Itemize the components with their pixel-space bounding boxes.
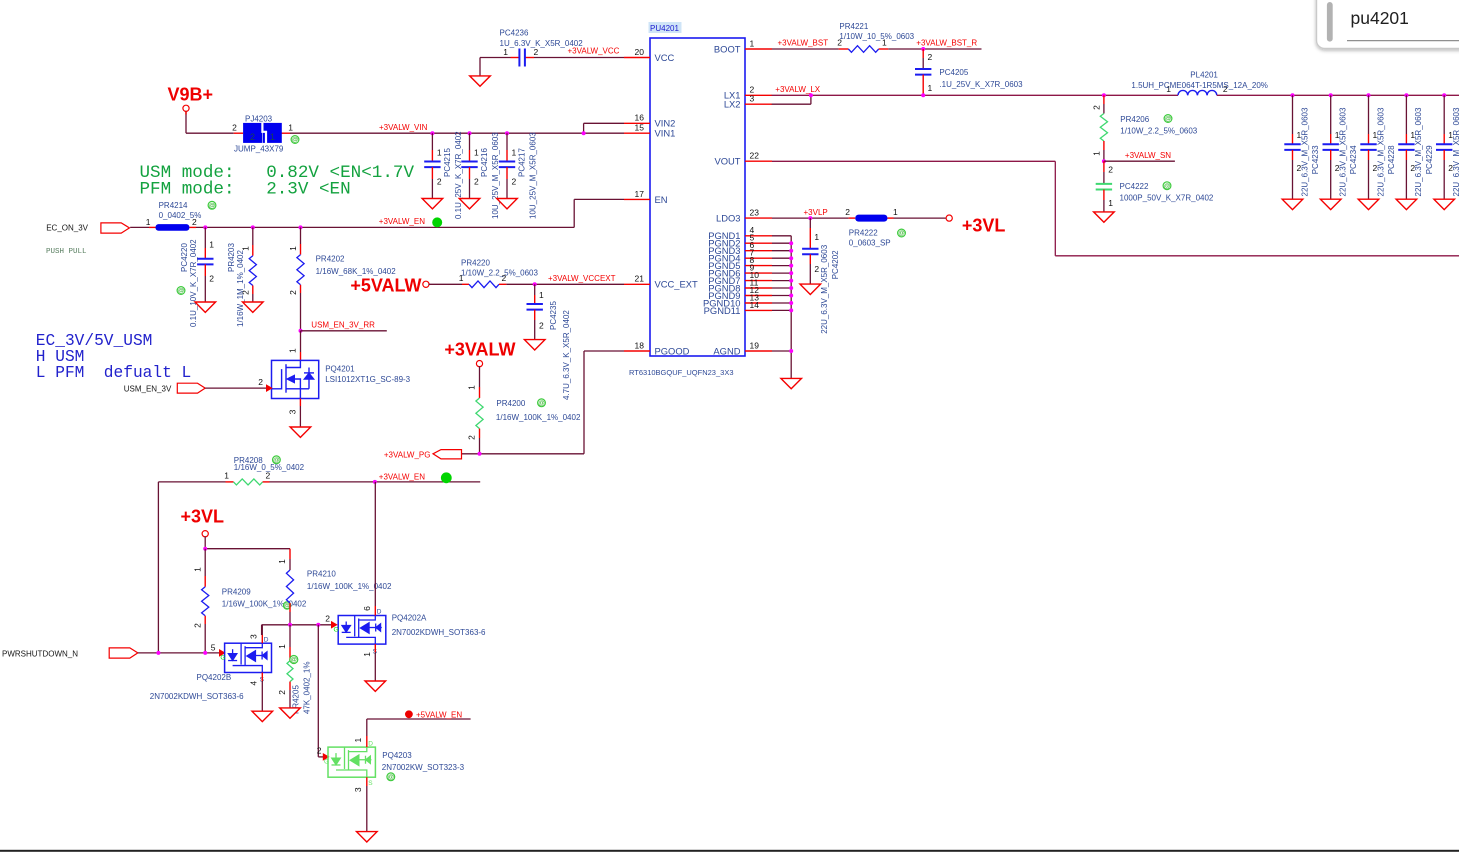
svg-text:2: 2 (250, 132, 255, 142)
svg-text:@: @ (209, 203, 216, 210)
svg-text:RT6310BGQUF_UQFN23_3X3: RT6310BGQUF_UQFN23_3X3 (629, 368, 734, 377)
junction on +3VALW rail at PC4228 (1367, 93, 1371, 97)
svg-text:PR4220: PR4220 (461, 259, 490, 268)
svg-text:1: 1 (209, 239, 214, 249)
wire PQ4202B source to ground (261, 673, 263, 712)
svg-text:1: 1 (288, 123, 293, 133)
svg-text:23: 23 (750, 208, 760, 218)
svg-text:2: 2 (288, 290, 298, 295)
net label +3VALW_EN (bottom) (379, 472, 452, 483)
svg-text:1: 1 (362, 652, 372, 657)
junction at PR4200 bottom (478, 452, 482, 456)
ground for PC4202 (800, 284, 821, 294)
net label +3VALW_EN (top) (379, 217, 442, 227)
svg-text:+3VALW_VCCEXT: +3VALW_VCCEXT (548, 274, 616, 283)
svg-text:D: D (368, 741, 373, 748)
power symbol +3VL (right) (946, 215, 1005, 236)
svg-text:+5VALW: +5VALW (350, 276, 421, 296)
svg-text:PR4221: PR4221 (839, 22, 868, 31)
svg-text:@: @ (387, 774, 394, 781)
svg-text:+3VALW_VCC: +3VALW_VCC (568, 47, 620, 56)
svg-text:2: 2 (232, 123, 237, 133)
wire EC_ON_3V to PR4214 (130, 226, 149, 228)
svg-text:+3VALW_SN: +3VALW_SN (1125, 151, 1171, 160)
wire +5VALW to PR4220 (429, 283, 463, 285)
svg-text:22U_6.3V_M_X5R_0603: 22U_6.3V_M_X5R_0603 (1414, 107, 1423, 197)
jumper PJ4203 JUMP_43X79 (232, 114, 299, 153)
wire PQ4202A source to ground (374, 644, 376, 681)
pin 9 (PGND6) of PU4201 (708, 263, 772, 279)
svg-text:BOOT: BOOT (714, 43, 741, 54)
svg-text:1: 1 (224, 471, 229, 481)
svg-text:PC4228: PC4228 (1387, 145, 1396, 174)
junction at PC4205 bottom (921, 93, 925, 97)
svg-text:2: 2 (209, 273, 214, 283)
svg-text:6: 6 (362, 606, 372, 611)
net label +3VALW_SN (1125, 151, 1171, 160)
svg-text:PQ4202A: PQ4202A (392, 614, 427, 623)
svg-text:PL4201: PL4201 (1190, 71, 1218, 80)
capacitor PC4228 22U_6.3V_M_X5R_0603 (1360, 95, 1396, 199)
svg-text:22: 22 (750, 151, 760, 161)
svg-text:1/10W_2.2_5%_0603: 1/10W_2.2_5%_0603 (1120, 126, 1198, 135)
ground for PC4217 (497, 199, 518, 209)
net label +3VALW_BST (778, 39, 829, 48)
net label +3VALW_VIN (379, 123, 428, 132)
svg-text:+3VALW: +3VALW (444, 340, 515, 360)
resistor PR4206 1/10W_2.2_5%_0603 (1091, 95, 1197, 161)
ground for PC4230 (1434, 199, 1455, 209)
capacitor PC4202 22U_6.3V_M_X5R_0603 (802, 218, 840, 334)
svg-text:47K_0402_1%: 47K_0402_1% (303, 662, 312, 715)
ground for PC4235 (524, 340, 545, 350)
svg-text:PC4222: PC4222 (1120, 182, 1149, 191)
svg-text:VIN1: VIN1 (655, 128, 676, 139)
svg-text:1: 1 (353, 738, 363, 743)
resistor PR4205 47K_0402_1% (277, 625, 312, 714)
svg-text:1: 1 (928, 83, 933, 93)
power symbol +3VALW (444, 340, 515, 367)
wire +3VL to PR4209/PR4210 (205, 536, 290, 548)
svg-text:3: 3 (288, 409, 298, 414)
resistor PR4210 1/16W_100K_1%_0402 (277, 549, 392, 625)
capacitor PC4217 10U_25V_M_X5R_0603 (499, 132, 538, 219)
ground for PC4228 (1358, 199, 1379, 209)
svg-text:1: 1 (277, 644, 287, 649)
svg-text:1000P_50V_K_X7R_0402: 1000P_50V_K_X7R_0402 (1120, 194, 1214, 203)
svg-text:PC4215: PC4215 (443, 148, 452, 177)
svg-text:PGND11: PGND11 (704, 305, 741, 316)
svg-text:1.5UH_PCME064T-1R5MS_12A_20%: 1.5UH_PCME064T-1R5MS_12A_20% (1131, 81, 1268, 90)
svg-text:PQ4202B: PQ4202B (197, 673, 232, 682)
svg-text:PC4236: PC4236 (500, 29, 529, 38)
junction at PC4205 (921, 47, 925, 51)
pin 10 (PGND7) of PU4201 (708, 270, 772, 286)
svg-text:1: 1 (467, 385, 477, 390)
wire stub USM_EN_3V_RR (301, 330, 387, 332)
transistor PQ4201 LSI1012XT1G_SC-89-3 (272, 348, 411, 414)
svg-text:1: 1 (893, 207, 898, 217)
svg-text:+3VALW_EN: +3VALW_EN (379, 472, 425, 481)
ground for PQ4201 (290, 427, 311, 437)
svg-text:PR4209: PR4209 (222, 587, 251, 596)
svg-text:PC4216: PC4216 (480, 148, 489, 177)
wire PQ4201 source to ground (299, 399, 301, 428)
svg-text:AGND: AGND (713, 345, 740, 356)
svg-text:PC4217: PC4217 (518, 148, 527, 177)
resistor PR4222 0_0603_SP (845, 207, 905, 247)
svg-text:2: 2 (1108, 165, 1113, 175)
junction PWRSHUTDOWN at +3VALW_EN branch (156, 651, 160, 655)
svg-text:1/16W_1M_1%_0402: 1/16W_1M_1%_0402 (236, 250, 245, 327)
svg-text:PGOOD: PGOOD (655, 345, 690, 356)
svg-text:+3VALW_LX: +3VALW_LX (775, 85, 821, 94)
svg-text:1: 1 (277, 559, 287, 564)
svg-text:21: 21 (635, 274, 645, 284)
svg-text:USM_EN_3V: USM_EN_3V (124, 384, 172, 393)
wire PQ4203 source to ground (366, 777, 368, 831)
gate arrow PQ4203 pin 2 (317, 746, 329, 760)
svg-text:2: 2 (192, 623, 202, 628)
svg-text:VCC: VCC (655, 52, 675, 63)
wire net +3VALW_PG (462, 351, 625, 454)
net label USM_EN_3V_RR (311, 321, 375, 330)
capacitor PC4234 22U_6.3V_M_X5R_0603 (1323, 95, 1359, 199)
svg-text:1: 1 (288, 246, 298, 251)
ground for PR4205 (280, 708, 301, 718)
pin 5 (PGND2) of PU4201 (708, 233, 772, 249)
svg-text:D: D (377, 609, 382, 616)
svg-text:2: 2 (928, 52, 933, 62)
port EC_ON_3V (46, 223, 129, 233)
junction +3VALW_EN at PR4202 (299, 225, 303, 229)
svg-text:1/16W_0_5%_0402: 1/16W_0_5%_0402 (234, 463, 305, 472)
net label +3VALW_VCCEXT (548, 274, 616, 283)
gate arrow PQ4202B pin 5 (211, 643, 225, 656)
svg-text:1: 1 (146, 217, 151, 227)
power symbol V9B+ (167, 84, 213, 111)
junction at PR4205 / PQ4203 branch (316, 623, 320, 627)
net label +3VALW_BST_R (916, 39, 977, 48)
svg-text:2: 2 (1091, 105, 1101, 110)
ground for PC4222 (1094, 212, 1115, 222)
pin 12 (PGND9) of PU4201 (708, 285, 772, 301)
text note USM/PFM mode (green) (140, 163, 415, 200)
junctions on PGND bus (789, 241, 793, 353)
net label +3VALW_VCC (568, 47, 620, 56)
pin 23 (LDO3) of PU4201 (716, 208, 772, 224)
svg-text:17: 17 (635, 189, 645, 199)
svg-text:1: 1 (1091, 151, 1101, 156)
svg-text:4: 4 (249, 681, 259, 686)
text note PUSH PULL (46, 248, 87, 256)
svg-text:1: 1 (288, 348, 298, 353)
net label +3VALW_LX (775, 85, 821, 94)
capacitor PC4230 22U_6.3V_M_X5R_0603 (1436, 95, 1459, 199)
wire net +3VALW_EN bottom run (158, 482, 480, 653)
junction at PR4210 bottom (288, 623, 292, 627)
wire net VOUT to +3VALW rail (772, 161, 1459, 256)
svg-text:+3VLP: +3VLP (804, 208, 828, 217)
svg-text:3: 3 (750, 94, 755, 104)
svg-text:JUMP_43X79: JUMP_43X79 (234, 145, 284, 154)
window bottom edge line (0, 850, 1459, 852)
svg-text:22U_6.3V_M_X5R_0603: 22U_6.3V_M_X5R_0603 (1339, 107, 1348, 197)
svg-text:L PFM defualt L: L PFM defualt L (36, 364, 191, 382)
svg-text:2: 2 (258, 377, 263, 387)
svg-text:2: 2 (474, 177, 479, 187)
gate arrow PQ4202A pin 2 (325, 613, 336, 628)
junction at PC4235 (533, 282, 537, 286)
ground for PC4216 (459, 199, 480, 209)
pin 7 (PGND4) of PU4201 (708, 248, 772, 264)
svg-text:10U_25V_M_X5R_0603: 10U_25V_M_X5R_0603 (491, 132, 500, 219)
svg-text:1: 1 (474, 148, 479, 158)
svg-text:3: 3 (353, 787, 363, 792)
svg-text:2: 2 (317, 746, 322, 756)
wire net +3VLP (772, 217, 849, 219)
svg-text:PC4205: PC4205 (939, 68, 968, 77)
wire PWRSHUTDOWN_N to PQ4202B gate (138, 652, 220, 654)
svg-text:0_0402_5%: 0_0402_5% (159, 211, 202, 220)
junction at PC4202 (808, 216, 812, 220)
junction +3VALW_EN at PQ4202A drain (373, 480, 377, 484)
port USM_EN_3V (124, 383, 205, 393)
svg-text:1: 1 (539, 290, 544, 300)
resistor PR4220 1/10W_2.2_5%_0603 (459, 259, 539, 288)
resistor PR4214 0_0402_5% (146, 201, 216, 231)
svg-text:+3VALW_BST: +3VALW_BST (778, 39, 829, 48)
wire net +3VALW_EN top run (196, 199, 624, 227)
capacitor PC4220 0.1U_10V_K_X7R_0402 (177, 227, 214, 327)
svg-text:@: @ (1164, 183, 1171, 190)
junction node +3VALW_SN (1102, 159, 1106, 163)
ground for PC4215 (422, 199, 443, 209)
wire gate row PQ4202A (262, 625, 332, 635)
port PWRSHUTDOWN_N (2, 648, 138, 658)
svg-text:+5VALW_EN: +5VALW_EN (416, 710, 462, 719)
transistor PQ4202B 2N7002KDWH_SOT363-6 (150, 625, 272, 701)
svg-text:0.1U_10V_K_X7R_0402: 0.1U_10V_K_X7R_0402 (189, 239, 198, 327)
junction on +3VALW rail at PC4234 (1329, 93, 1333, 97)
capacitor PC4205 .1U_25V_K_X7R_0603 (915, 49, 1023, 95)
svg-text:G: G (324, 758, 329, 765)
ground for PC4229 (1396, 199, 1417, 209)
resistor PR4202 1/16W_68K_1%_0402 (288, 227, 396, 330)
svg-text:PJ4203: PJ4203 (245, 114, 273, 123)
junction at PR4206 (1102, 93, 1106, 97)
capacitor PC4216 10U_25V_M_X5R_0603 (461, 132, 500, 219)
svg-text:2: 2 (534, 47, 539, 57)
IC PU4201 RT6310BGQUF_UQFN23_3X3 body (629, 22, 745, 377)
svg-text:2: 2 (277, 690, 287, 695)
ground for PQ4203 (357, 832, 378, 842)
ground for PQ4202A (365, 681, 386, 691)
svg-text:2: 2 (467, 435, 477, 440)
junction on +3VALW rail at PC4233 (1291, 93, 1295, 97)
wire PGND bus (772, 236, 791, 379)
power symbol +3VL (bottom) (180, 506, 224, 537)
svg-text:1: 1 (437, 148, 442, 158)
search overlay panel (1317, 0, 1459, 49)
svg-text:VCC_EXT: VCC_EXT (655, 279, 699, 290)
ground for PQ4202B (252, 711, 273, 721)
pin 3 (LX2) of PU4201 (724, 94, 772, 110)
svg-text:1: 1 (512, 148, 517, 158)
pin 20 (VCC) of PU4201 (624, 47, 675, 63)
svg-text:EC_ON_3V: EC_ON_3V (46, 224, 88, 233)
svg-text:19: 19 (750, 340, 760, 350)
svg-text:PR4206: PR4206 (1120, 115, 1149, 124)
svg-text:PR4203: PR4203 (227, 243, 236, 272)
svg-text:V9B+: V9B+ (167, 84, 213, 104)
net label +3VLP (804, 208, 828, 217)
svg-text:PQ4201: PQ4201 (325, 365, 355, 374)
pin 16 (VIN2) of PU4201 (624, 113, 675, 129)
svg-text:@: @ (290, 657, 297, 664)
net label +5VALW_EN (405, 710, 462, 719)
pin 6 (PGND3) of PU4201 (708, 240, 772, 256)
text note EC_3V/5V_USM (blue) (36, 332, 191, 382)
svg-text:+3VALW_BST_R: +3VALW_BST_R (916, 39, 977, 48)
svg-text:1/10W_10_5%_0603: 1/10W_10_5%_0603 (839, 32, 914, 41)
wire net V9B+ to jumper (186, 111, 234, 133)
svg-text:VOUT: VOUT (714, 156, 740, 167)
wire net +3VALW_LX (772, 95, 1178, 104)
ground for PC4234 (1320, 199, 1341, 209)
svg-text:PFM mode: 2.3V <EN: PFM mode: 2.3V <EN (140, 180, 351, 200)
svg-text:22U_6.3V_M_X5R_0603: 22U_6.3V_M_X5R_0603 (1452, 107, 1459, 197)
pin 2 (LX1) of PU4201 (724, 85, 772, 101)
junction on +3VALW_VIN at PC4216 (468, 131, 472, 135)
wire stub +3VALW_SN (1104, 160, 1175, 162)
port +3VALW_PG (384, 450, 462, 460)
svg-text:+3VALW_VIN: +3VALW_VIN (379, 123, 428, 132)
svg-text:16: 16 (635, 113, 645, 123)
svg-text:1: 1 (192, 567, 202, 572)
svg-text:PR4210: PR4210 (307, 570, 336, 579)
svg-text:+3VL: +3VL (962, 216, 1006, 236)
pin 18 (PGOOD) of PU4201 (624, 340, 690, 356)
svg-text:+3VL: +3VL (180, 506, 224, 526)
svg-text:5: 5 (211, 643, 216, 653)
pin 21 (VCC_EXT) of PU4201 (624, 274, 698, 290)
wire net +5VALW_EN (367, 719, 471, 736)
svg-text:2: 2 (437, 177, 442, 187)
wire net +3VALW_VCCEXT (506, 283, 624, 285)
capacitor PC4235 4.7U_6.3V_K_X5R_0402 (527, 284, 571, 400)
svg-text:2: 2 (814, 264, 819, 274)
svg-text:LDO3: LDO3 (716, 213, 741, 224)
svg-text:pu4201: pu4201 (1351, 8, 1409, 28)
pin 14 (PGND11) of PU4201 (704, 300, 772, 316)
svg-text:0.1U_25V_K_X7R_0402: 0.1U_25V_K_X7R_0402 (454, 131, 463, 219)
junction on +3VALW_VIN at PC4215 (430, 131, 434, 135)
capacitor PC4229 22U_6.3V_M_X5R_0603 (1398, 95, 1434, 199)
svg-text:1: 1 (814, 232, 819, 242)
svg-text:4.7U_6.3V_K_X5R_0402: 4.7U_6.3V_K_X5R_0402 (562, 310, 571, 400)
svg-text:+3VALW_EN: +3VALW_EN (379, 217, 425, 226)
svg-text:2N7002KDWH_SOT363-6: 2N7002KDWH_SOT363-6 (392, 628, 486, 637)
wire PR4222 to +3VL (894, 217, 947, 219)
pin 22 (VOUT) of PU4201 (714, 151, 772, 167)
resistor PR4200 1/16W_100K_1%_0402 (467, 366, 581, 454)
resistor PR4221 1/10W_10_5%_0603 (837, 22, 914, 52)
pin 13 (PGND10) of PU4201 (703, 292, 772, 308)
svg-text:LSI1012XT1G_SC-89-3: LSI1012XT1G_SC-89-3 (325, 375, 410, 384)
svg-text:1/16W_100K_1%_0402: 1/16W_100K_1%_0402 (496, 413, 581, 422)
svg-text:22U_6.3V_M_X5R_0603: 22U_6.3V_M_X5R_0603 (1376, 107, 1385, 197)
svg-text:@: @ (1165, 116, 1172, 123)
svg-text:PC4234: PC4234 (1349, 145, 1358, 174)
svg-text:PC4229: PC4229 (1425, 145, 1434, 174)
wire USM_EN_3V to PQ4201 gate (205, 387, 266, 389)
svg-text:22U_6.3V_M_X5R_0603: 22U_6.3V_M_X5R_0603 (1300, 107, 1309, 197)
svg-text:G: G (220, 654, 225, 661)
svg-text:PC4233: PC4233 (1311, 145, 1320, 174)
junction node USM_EN_3V_RR (299, 329, 303, 333)
inductor PL4201 1.5UH_PCME064T-1R5MS_12A_20% (1131, 71, 1268, 96)
wire net +3VALW_VCC (480, 58, 624, 76)
pin 4 (PGND1) of PU4201 (708, 225, 772, 241)
svg-text:@: @ (292, 137, 299, 144)
svg-text:LX2: LX2 (724, 99, 741, 110)
svg-text:PR4202: PR4202 (316, 255, 345, 264)
junction on +3VALW rail at PC4229 (1404, 93, 1408, 97)
capacitor PC4236 1U_6.3V_K_X5R_0402 (500, 29, 584, 67)
svg-text:2: 2 (512, 177, 517, 187)
resistor PR4209 1/16W_100K_1%_0402 (192, 549, 306, 653)
svg-text:PC4235: PC4235 (549, 301, 558, 330)
power symbol +5VALW (350, 276, 429, 296)
svg-text:.1U_25V_K_X7R_0603: .1U_25V_K_X7R_0603 (939, 80, 1023, 89)
svg-text:15: 15 (635, 123, 645, 133)
svg-text:0_0603_SP: 0_0603_SP (849, 239, 891, 248)
ground for PGND bus (781, 378, 802, 388)
ground for PC4220 (195, 302, 216, 312)
svg-text:PC4202: PC4202 (831, 250, 840, 279)
capacitor PC4215 0.1U_25V_K_X7R_0402 (424, 131, 463, 219)
svg-text:@: @ (898, 230, 905, 237)
svg-text:1: 1 (503, 47, 508, 57)
svg-text:PC4220: PC4220 (180, 243, 189, 272)
resistor PR4208 1/16W_0_5%_0402 (224, 456, 304, 485)
svg-text:S: S (368, 780, 373, 787)
svg-text:PR4214: PR4214 (159, 201, 188, 210)
svg-text:D: D (264, 636, 269, 643)
junction LX1/LX2 merge (809, 93, 813, 97)
svg-text:PU4201: PU4201 (650, 24, 679, 33)
ground for PC4233 (1282, 199, 1303, 209)
junction +3VALW_EN at PC4220 (203, 225, 207, 229)
junction on +3VALW rail at PC4230 (1442, 93, 1446, 97)
svg-text:2: 2 (325, 613, 330, 623)
svg-text:PWRSHUTDOWN_N: PWRSHUTDOWN_N (2, 649, 78, 658)
transistor PQ4202A 2N7002KDWH_SOT363-6 (334, 482, 487, 657)
svg-text:PQ4203: PQ4203 (382, 751, 412, 760)
svg-text:G: G (334, 627, 339, 634)
gate arrow PQ4201 pin 2 (258, 377, 271, 391)
pin 11 (PGND8) of PU4201 (708, 277, 772, 293)
pin 1 (BOOT) of PU4201 (714, 38, 772, 54)
svg-text:+3VALW_PG: +3VALW_PG (384, 450, 431, 459)
svg-text:18: 18 (635, 340, 645, 350)
pin 15 (VIN1) of PU4201 (624, 123, 675, 139)
svg-text:10U_25V_M_X5R_0603: 10U_25V_M_X5R_0603 (529, 132, 538, 219)
svg-text:2: 2 (539, 320, 544, 330)
resistor PR4203 1/16W_1M_1%_0402 (227, 227, 256, 327)
junction at +3VL node (203, 547, 207, 551)
